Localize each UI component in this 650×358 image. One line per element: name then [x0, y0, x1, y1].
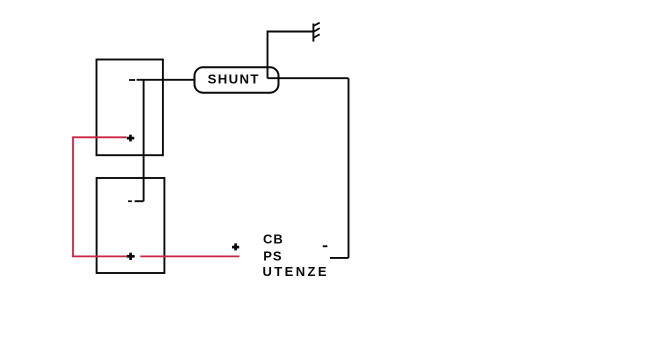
svg-text:UTENZE: UTENZE: [263, 264, 329, 279]
svg-text:CB: CB: [263, 232, 284, 247]
svg-text:SHUNT: SHUNT: [208, 72, 260, 87]
svg-text:PS: PS: [263, 249, 282, 264]
